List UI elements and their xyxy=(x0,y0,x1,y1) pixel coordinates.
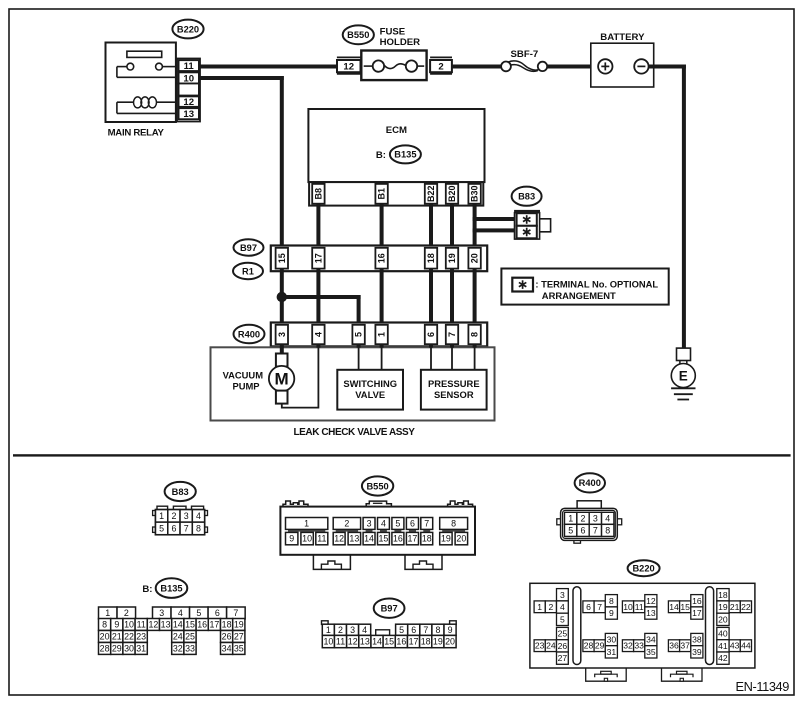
svg-text:1: 1 xyxy=(105,608,110,618)
svg-text:6: 6 xyxy=(171,524,176,534)
svg-text:4: 4 xyxy=(560,602,565,612)
svg-text:14: 14 xyxy=(372,637,382,647)
svg-text:15: 15 xyxy=(384,637,394,647)
svg-text:38: 38 xyxy=(692,635,702,645)
svg-text:19: 19 xyxy=(718,602,728,612)
svg-text:11: 11 xyxy=(336,637,345,647)
svg-text:10: 10 xyxy=(323,637,333,647)
svg-text:12: 12 xyxy=(348,637,358,647)
svg-text:23: 23 xyxy=(535,641,545,651)
svg-text:FUSE: FUSE xyxy=(380,26,406,37)
svg-text:37: 37 xyxy=(680,641,690,651)
svg-text:B:: B: xyxy=(376,150,386,161)
svg-text:30: 30 xyxy=(124,644,134,654)
svg-text:1: 1 xyxy=(159,511,164,521)
svg-text:7: 7 xyxy=(424,519,429,529)
svg-text:24: 24 xyxy=(173,632,183,642)
svg-text:26: 26 xyxy=(558,641,568,651)
svg-text:4: 4 xyxy=(605,513,610,523)
svg-text:B22: B22 xyxy=(426,186,436,203)
svg-text:27: 27 xyxy=(558,653,568,663)
svg-text:3: 3 xyxy=(184,511,189,521)
svg-text:B97: B97 xyxy=(240,243,257,253)
svg-text:6: 6 xyxy=(411,625,416,635)
svg-text:13: 13 xyxy=(646,608,656,618)
svg-text:14: 14 xyxy=(173,620,183,630)
svg-text:3: 3 xyxy=(159,608,164,618)
svg-text:5: 5 xyxy=(159,524,164,534)
svg-text:B1: B1 xyxy=(377,188,387,200)
svg-text:12: 12 xyxy=(183,97,194,108)
svg-text:6: 6 xyxy=(426,332,436,337)
svg-text:16: 16 xyxy=(396,637,406,647)
svg-text:1: 1 xyxy=(537,602,542,612)
svg-text:4: 4 xyxy=(362,625,367,635)
svg-text:4: 4 xyxy=(314,332,324,337)
svg-text:13: 13 xyxy=(183,109,194,120)
svg-text:23: 23 xyxy=(136,632,146,642)
svg-text:18: 18 xyxy=(422,534,432,544)
svg-text:44: 44 xyxy=(741,641,751,651)
svg-text:22: 22 xyxy=(124,632,134,642)
svg-text:36: 36 xyxy=(669,641,679,651)
svg-text:20: 20 xyxy=(100,632,110,642)
svg-text:35: 35 xyxy=(646,647,656,657)
svg-text:18: 18 xyxy=(222,620,232,630)
svg-text:12: 12 xyxy=(343,62,354,73)
svg-text:12: 12 xyxy=(646,596,656,606)
svg-text:B135: B135 xyxy=(394,150,416,160)
svg-text:21: 21 xyxy=(112,632,122,642)
svg-text:LEAK CHECK VALVE ASSY: LEAK CHECK VALVE ASSY xyxy=(293,427,415,438)
svg-text:SENSOR: SENSOR xyxy=(434,389,474,400)
svg-text:BATTERY: BATTERY xyxy=(600,32,645,43)
svg-text:25: 25 xyxy=(558,629,568,639)
svg-text:3: 3 xyxy=(350,625,355,635)
svg-text:2: 2 xyxy=(171,511,176,521)
svg-text:7: 7 xyxy=(423,625,428,635)
svg-text:9: 9 xyxy=(609,608,614,618)
svg-text:39: 39 xyxy=(692,647,702,657)
svg-text:33: 33 xyxy=(634,641,644,651)
svg-text:5: 5 xyxy=(395,519,400,529)
svg-text:34: 34 xyxy=(646,635,656,645)
svg-text:2: 2 xyxy=(438,62,443,73)
svg-text:5: 5 xyxy=(399,625,404,635)
svg-text:8: 8 xyxy=(451,519,456,529)
svg-text:5: 5 xyxy=(568,525,573,535)
svg-text:18: 18 xyxy=(718,590,728,600)
svg-text:17: 17 xyxy=(209,620,219,630)
svg-text:34: 34 xyxy=(222,644,232,654)
svg-text:B20: B20 xyxy=(447,186,457,203)
svg-text:B220: B220 xyxy=(177,24,199,34)
svg-text:2: 2 xyxy=(549,602,554,612)
svg-text:43: 43 xyxy=(730,641,740,651)
svg-text:8: 8 xyxy=(470,332,480,337)
svg-text:3: 3 xyxy=(367,519,372,529)
svg-text:20: 20 xyxy=(456,534,466,544)
svg-text:33: 33 xyxy=(185,644,195,654)
svg-text:4: 4 xyxy=(178,608,183,618)
svg-text:SWITCHING: SWITCHING xyxy=(343,378,397,389)
svg-text:E: E xyxy=(679,368,688,383)
svg-text:8: 8 xyxy=(605,525,610,535)
svg-text:R400: R400 xyxy=(238,329,260,339)
svg-text:11: 11 xyxy=(184,61,195,72)
svg-text:13: 13 xyxy=(161,620,171,630)
svg-text:31: 31 xyxy=(607,647,617,657)
svg-text:8: 8 xyxy=(102,620,107,630)
svg-text:3: 3 xyxy=(560,590,565,600)
svg-text:15: 15 xyxy=(277,253,287,263)
svg-text:16: 16 xyxy=(393,534,403,544)
svg-text:B135: B135 xyxy=(160,583,182,593)
svg-text:7: 7 xyxy=(233,608,238,618)
svg-text:2: 2 xyxy=(338,625,343,635)
svg-text:19: 19 xyxy=(234,620,244,630)
svg-text:22: 22 xyxy=(741,602,751,612)
svg-text:1: 1 xyxy=(304,519,309,529)
svg-text:VACUUM: VACUUM xyxy=(223,370,264,381)
svg-text:ECM: ECM xyxy=(386,125,407,136)
svg-text:5: 5 xyxy=(560,614,565,624)
svg-text:16: 16 xyxy=(377,253,387,263)
svg-text:25: 25 xyxy=(185,632,195,642)
svg-text:7: 7 xyxy=(593,525,598,535)
svg-text:35: 35 xyxy=(234,644,244,654)
svg-text:18: 18 xyxy=(426,253,436,263)
svg-text:2: 2 xyxy=(344,519,349,529)
svg-text:32: 32 xyxy=(623,641,633,651)
svg-text:10: 10 xyxy=(302,534,312,544)
svg-text:6: 6 xyxy=(215,608,220,618)
svg-text:17: 17 xyxy=(314,253,324,263)
svg-text:42: 42 xyxy=(718,653,728,663)
svg-text:27: 27 xyxy=(234,632,244,642)
svg-text:2: 2 xyxy=(581,513,586,523)
svg-text:30: 30 xyxy=(607,635,617,645)
svg-text:20: 20 xyxy=(470,253,480,263)
svg-text:9: 9 xyxy=(448,625,453,635)
svg-text:17: 17 xyxy=(409,637,419,647)
svg-text:32: 32 xyxy=(173,644,183,654)
svg-text:8: 8 xyxy=(435,625,440,635)
svg-text:12: 12 xyxy=(334,534,344,544)
svg-text:M: M xyxy=(275,370,289,389)
svg-text:11: 11 xyxy=(317,534,326,544)
svg-text:6: 6 xyxy=(581,525,586,535)
svg-text:17: 17 xyxy=(408,534,418,544)
svg-text:9: 9 xyxy=(114,620,119,630)
svg-text:ARRANGEMENT: ARRANGEMENT xyxy=(542,290,616,301)
svg-text:16: 16 xyxy=(692,596,702,606)
svg-text:4: 4 xyxy=(381,519,386,529)
svg-text:B97: B97 xyxy=(381,603,398,613)
svg-text:10: 10 xyxy=(124,620,134,630)
svg-text:29: 29 xyxy=(595,641,605,651)
svg-text:EN-11349: EN-11349 xyxy=(736,679,790,694)
svg-text:28: 28 xyxy=(100,644,110,654)
svg-text:4: 4 xyxy=(196,511,201,521)
svg-text:PRESSURE: PRESSURE xyxy=(428,378,480,389)
svg-text:21: 21 xyxy=(730,602,740,612)
svg-text:20: 20 xyxy=(445,637,455,647)
svg-text:1: 1 xyxy=(568,513,573,523)
svg-text:15: 15 xyxy=(680,602,690,612)
svg-text:2: 2 xyxy=(124,608,129,618)
svg-text:B8: B8 xyxy=(314,188,324,200)
svg-text:14: 14 xyxy=(669,602,679,612)
svg-text:14: 14 xyxy=(364,534,374,544)
svg-text:SBF-7: SBF-7 xyxy=(511,49,539,60)
svg-text:HOLDER: HOLDER xyxy=(380,37,421,48)
svg-text:B:: B: xyxy=(142,584,152,595)
svg-text:5: 5 xyxy=(354,332,364,337)
svg-text:5: 5 xyxy=(196,608,201,618)
svg-text:17: 17 xyxy=(692,608,702,618)
svg-text:B220: B220 xyxy=(632,563,654,573)
svg-text:13: 13 xyxy=(360,637,370,647)
svg-text:28: 28 xyxy=(584,641,594,651)
svg-text:B83: B83 xyxy=(518,191,535,201)
svg-text:15: 15 xyxy=(185,620,195,630)
svg-text:3: 3 xyxy=(593,513,598,523)
svg-text:B550: B550 xyxy=(366,481,388,491)
svg-text:7: 7 xyxy=(597,602,602,612)
svg-text:7: 7 xyxy=(184,524,189,534)
svg-text:B550: B550 xyxy=(347,30,369,40)
svg-text:15: 15 xyxy=(379,534,389,544)
svg-text:20: 20 xyxy=(718,614,728,624)
svg-text:11: 11 xyxy=(137,620,146,630)
svg-text:19: 19 xyxy=(441,534,451,544)
svg-text:18: 18 xyxy=(421,637,431,647)
svg-text:1: 1 xyxy=(377,332,387,337)
svg-text:7: 7 xyxy=(447,332,457,337)
svg-text:MAIN RELAY: MAIN RELAY xyxy=(108,127,165,138)
svg-text:9: 9 xyxy=(289,534,294,544)
svg-text:8: 8 xyxy=(196,524,201,534)
svg-text:41: 41 xyxy=(718,641,728,651)
svg-text:31: 31 xyxy=(136,644,146,654)
svg-text:6: 6 xyxy=(586,602,591,612)
svg-text:12: 12 xyxy=(148,620,158,630)
svg-text:24: 24 xyxy=(546,641,556,651)
svg-text:11: 11 xyxy=(635,602,644,612)
svg-text:19: 19 xyxy=(433,637,443,647)
svg-text:8: 8 xyxy=(609,596,614,606)
svg-text:16: 16 xyxy=(197,620,207,630)
svg-text:6: 6 xyxy=(410,519,415,529)
svg-text:19: 19 xyxy=(447,253,457,263)
svg-text:26: 26 xyxy=(222,632,232,642)
svg-text:29: 29 xyxy=(112,644,122,654)
svg-text:VALVE: VALVE xyxy=(355,389,385,400)
svg-text:13: 13 xyxy=(349,534,359,544)
svg-text:R1: R1 xyxy=(242,266,254,276)
svg-text:B30: B30 xyxy=(470,186,480,203)
svg-text:10: 10 xyxy=(623,602,633,612)
svg-text:B83: B83 xyxy=(172,487,189,497)
svg-text:1: 1 xyxy=(326,625,331,635)
svg-text:3: 3 xyxy=(277,332,287,337)
svg-text:PUMP: PUMP xyxy=(232,381,259,392)
svg-text:: TERMINAL No. OPTIONAL: : TERMINAL No. OPTIONAL xyxy=(535,279,658,290)
svg-text:40: 40 xyxy=(718,629,728,639)
svg-text:R400: R400 xyxy=(579,478,601,488)
